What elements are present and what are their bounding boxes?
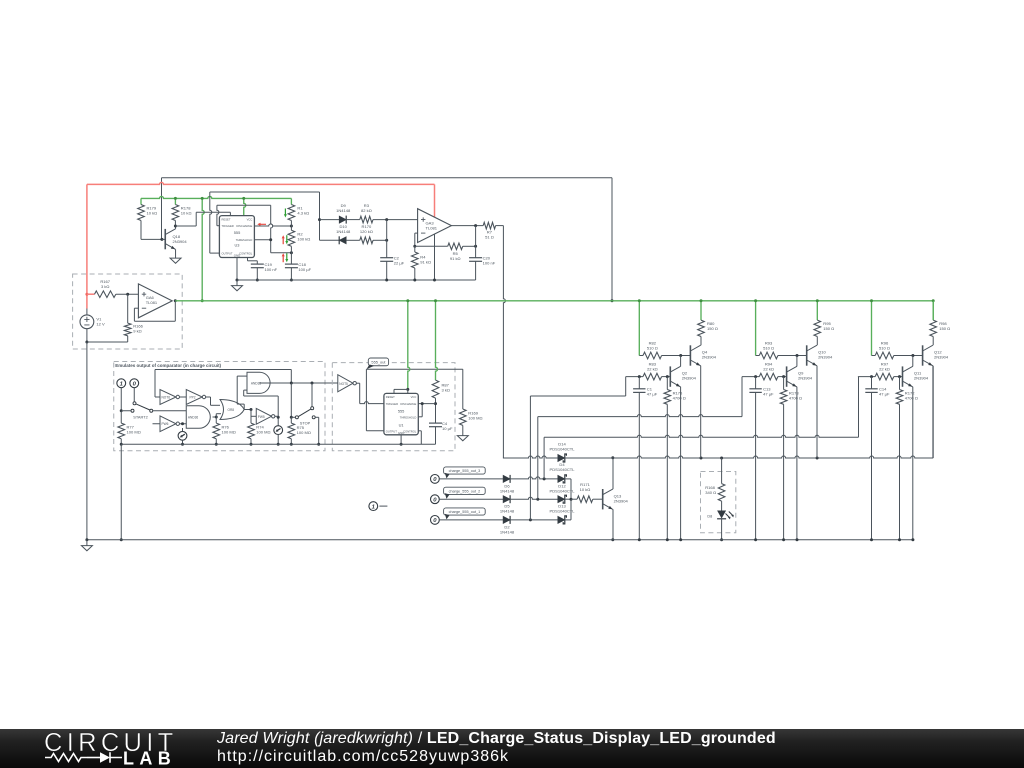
svg-text:120 kΩ: 120 kΩ [360, 229, 373, 234]
svg-text:47 µF: 47 µF [763, 392, 774, 397]
svg-text:TL081: TL081 [146, 300, 158, 305]
svg-text:2N3904: 2N3904 [702, 354, 717, 359]
svg-text:4.3 kΩ: 4.3 kΩ [297, 211, 309, 216]
svg-text:2N3904: 2N3904 [798, 375, 813, 380]
svg-text:PDS1040CTL: PDS1040CTL [550, 446, 576, 451]
svg-text:1N4148: 1N4148 [500, 529, 515, 534]
svg-text:THRESHOLD: THRESHOLD [236, 238, 253, 242]
svg-text:22 µF: 22 µF [394, 261, 405, 266]
svg-text:Emulates output of comparator: Emulates output of comparator (in charge… [115, 363, 221, 368]
svg-text:charge_555_out_2: charge_555_out_2 [449, 489, 481, 493]
svg-text:47 µF: 47 µF [879, 392, 890, 397]
svg-text:10 kΩ: 10 kΩ [580, 487, 591, 492]
svg-text:47 µF: 47 µF [647, 392, 658, 397]
svg-text:RESET: RESET [222, 218, 231, 222]
svg-text:GND: GND [234, 253, 240, 257]
svg-text:PDS1040CTL: PDS1040CTL [550, 467, 576, 472]
svg-text:91 kΩ: 91 kΩ [420, 260, 431, 265]
svg-text:150 Ω: 150 Ω [707, 326, 718, 331]
svg-text:12 V: 12 V [96, 322, 105, 327]
svg-text:U3: U3 [235, 243, 240, 248]
svg-text:4700 Ω: 4700 Ω [789, 395, 802, 400]
svg-text:3 kΩ: 3 kΩ [101, 284, 109, 289]
svg-text:82 kΩ: 82 kΩ [361, 208, 372, 213]
svg-text:PP2: PP2 [190, 396, 196, 400]
svg-text:TRIGGER: TRIGGER [386, 402, 398, 406]
svg-text:51 Ω: 51 Ω [485, 235, 494, 240]
svg-text:2N3904: 2N3904 [614, 499, 629, 504]
svg-text:22 kΩ: 22 kΩ [879, 367, 890, 372]
svg-text:150 Ω: 150 Ω [823, 326, 834, 331]
svg-text:1: 1 [372, 504, 375, 510]
svg-text:DISCHARGE: DISCHARGE [236, 224, 252, 228]
svg-text:GND: GND [398, 431, 404, 435]
svg-text:3 kΩ: 3 kΩ [442, 387, 450, 392]
svg-text:100 nF: 100 nF [265, 267, 278, 272]
svg-text:4700 Ω: 4700 Ω [673, 395, 686, 400]
svg-text:100 MΩ: 100 MΩ [297, 430, 311, 435]
svg-text:RESET: RESET [386, 395, 395, 399]
svg-text:555: 555 [234, 230, 241, 235]
svg-text:charge_555_out_1: charge_555_out_1 [449, 510, 481, 514]
svg-text:D8: D8 [707, 515, 712, 519]
svg-text:100 kΩ: 100 kΩ [297, 236, 310, 241]
svg-text:START2: START2 [133, 415, 148, 420]
svg-text:2N3904: 2N3904 [173, 239, 188, 244]
svg-text:1N4148: 1N4148 [500, 488, 515, 493]
svg-text:100 µF: 100 µF [298, 267, 311, 272]
svg-text:PW6: PW6 [162, 422, 169, 426]
svg-text:9 kΩ: 9 kΩ [133, 329, 141, 334]
svg-text:10 µF: 10 µF [442, 426, 453, 431]
svg-text:AND36: AND36 [188, 416, 199, 420]
svg-text:22 kΩ: 22 kΩ [647, 367, 658, 372]
svg-text:100 MΩ: 100 MΩ [222, 429, 236, 434]
svg-text:OR8: OR8 [228, 408, 235, 412]
svg-text:2N3904: 2N3904 [818, 354, 833, 359]
svg-text:1N4148: 1N4148 [336, 229, 351, 234]
svg-text:CONTROL: CONTROL [403, 429, 417, 433]
svg-text:100 MΩ: 100 MΩ [256, 429, 270, 434]
svg-text:510 Ω: 510 Ω [647, 346, 658, 351]
svg-text:VCC: VCC [411, 395, 417, 399]
svg-text:NOT5: NOT5 [339, 382, 348, 386]
svg-text:10 kΩ: 10 kΩ [181, 211, 192, 216]
svg-text:510 Ω: 510 Ω [763, 346, 774, 351]
svg-text:CONTROL: CONTROL [239, 251, 253, 255]
svg-text:555: 555 [398, 408, 405, 413]
svg-text:2N3904: 2N3904 [682, 375, 697, 380]
svg-text:100 nF: 100 nF [483, 261, 496, 266]
svg-text:DISCHARGE: DISCHARGE [400, 402, 416, 406]
svg-text:340 Ω: 340 Ω [705, 490, 716, 495]
svg-text:PW5: PW5 [258, 415, 265, 419]
svg-text:LAB: LAB [123, 749, 176, 768]
svg-text:1: 1 [120, 381, 123, 387]
svg-text:NOT6: NOT6 [162, 396, 171, 400]
svg-text:2N3904: 2N3904 [914, 375, 929, 380]
svg-text:OUTPUT: OUTPUT [222, 251, 233, 255]
svg-text:2N3904: 2N3904 [934, 354, 949, 359]
svg-text:1N4148: 1N4148 [500, 509, 515, 514]
svg-text:VCC: VCC [247, 218, 253, 222]
svg-text:THRESHOLD: THRESHOLD [400, 415, 417, 419]
svg-text:150 Ω: 150 Ω [939, 326, 950, 331]
svg-text:charge_555_out_3: charge_555_out_3 [449, 469, 481, 473]
svg-text:1N4148: 1N4148 [336, 208, 351, 213]
svg-text:10 kΩ: 10 kΩ [147, 211, 158, 216]
svg-text:4700 Ω: 4700 Ω [905, 395, 918, 400]
svg-text:OUTPUT: OUTPUT [386, 429, 397, 433]
svg-text:TL081: TL081 [426, 226, 438, 231]
svg-text:510 Ω: 510 Ω [879, 346, 890, 351]
svg-text:100 MΩ: 100 MΩ [127, 429, 141, 434]
svg-text:TRIGGER: TRIGGER [222, 224, 234, 228]
svg-text:91 kΩ: 91 kΩ [450, 256, 461, 261]
svg-text:22 kΩ: 22 kΩ [763, 367, 774, 372]
svg-text:U1: U1 [399, 423, 404, 428]
svg-text:555_out: 555_out [371, 359, 386, 364]
svg-text:100 MΩ: 100 MΩ [468, 416, 482, 421]
